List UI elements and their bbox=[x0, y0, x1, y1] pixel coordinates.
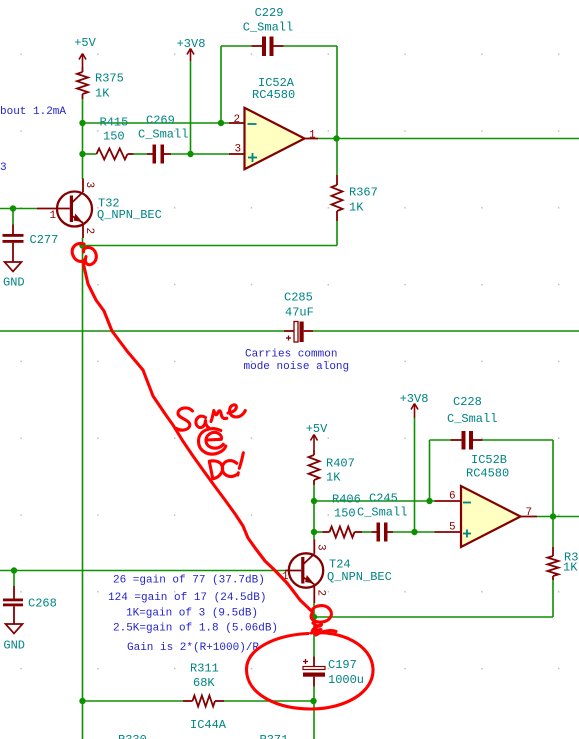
wire T24 emitter to C197 bbox=[313, 617, 315, 657]
svg-text:1K=gain of 3 (9.5dB): 1K=gain of 3 (9.5dB) bbox=[126, 608, 258, 620]
svg-text:1: 1 bbox=[309, 130, 316, 142]
svg-text:IC52B: IC52B bbox=[471, 453, 507, 467]
junction C229 loop / pin2 bbox=[218, 120, 224, 126]
op-amp U-IC52B body bbox=[461, 453, 521, 547]
note carries common mode noise bbox=[244, 349, 350, 374]
svg-text:C268: C268 bbox=[28, 597, 57, 611]
note gain table bbox=[108, 575, 278, 655]
wire C277 drop bbox=[12, 209, 14, 225]
svg-text:Q_NPN_BEC: Q_NPN_BEC bbox=[97, 208, 162, 222]
svg-text:+5V: +5V bbox=[306, 422, 328, 436]
svg-text:2: 2 bbox=[315, 590, 327, 597]
svg-text:R367: R367 bbox=[349, 186, 378, 200]
svg-text:IC44A: IC44A bbox=[190, 718, 227, 732]
svg-text:GND: GND bbox=[3, 639, 25, 653]
junction V1 pin3 net bbox=[79, 151, 85, 157]
capacitor C269 bbox=[138, 114, 188, 164]
junction T32 base / C277 bbox=[10, 205, 16, 211]
svg-text:6: 6 bbox=[449, 491, 456, 503]
capacitor C245 bbox=[357, 492, 407, 542]
svg-text:47uF: 47uF bbox=[285, 306, 314, 320]
wire emitter T32 to R367 bottom bbox=[83, 245, 338, 247]
svg-text:1K: 1K bbox=[563, 561, 578, 575]
svg-text:R371: R371 bbox=[260, 733, 289, 739]
annotation handwritten at-sign bbox=[199, 429, 226, 454]
junction IC52A output bbox=[333, 135, 339, 141]
svg-text:68K: 68K bbox=[193, 676, 215, 690]
label R330 (clipped) bbox=[118, 733, 147, 739]
svg-text:1K: 1K bbox=[326, 471, 341, 485]
capacitor C268 bbox=[3, 586, 57, 624]
resistor R375 bbox=[77, 67, 124, 101]
svg-text:C269: C269 bbox=[146, 114, 175, 128]
op-amp U-IC52A body bbox=[245, 76, 305, 169]
junction C197 bottom bbox=[310, 698, 316, 704]
svg-text:2: 2 bbox=[83, 228, 95, 235]
wire R3 connections bbox=[552, 517, 554, 618]
power +5V (top) bbox=[74, 36, 96, 67]
wire emitter T24 net bbox=[314, 603, 553, 617]
svg-text:C228: C228 bbox=[453, 395, 482, 409]
wire V1 lower (emitter of T32 down) bbox=[82, 238, 84, 739]
svg-text:1K: 1K bbox=[349, 201, 364, 215]
svg-text:124 =gain of 17 (24.5dB): 124 =gain of 17 (24.5dB) bbox=[108, 592, 266, 604]
label IC44A bbox=[190, 718, 227, 732]
svg-text:R415: R415 bbox=[100, 116, 129, 130]
capacitor C285 47uF polarized bbox=[284, 291, 314, 343]
svg-text:+3V8: +3V8 bbox=[177, 37, 206, 51]
annotation oval around C197 bbox=[246, 631, 373, 709]
svg-text:3: 3 bbox=[83, 182, 95, 189]
wire C197 to bottom bbox=[313, 687, 315, 739]
annotation circle on T24 emitter node bbox=[311, 606, 331, 631]
power +5V (bottom) bbox=[306, 422, 328, 450]
wire +5V rail / V1 upper bbox=[82, 99, 84, 179]
wire +3V8 bottom drop bbox=[414, 417, 416, 532]
capacitor C277 bbox=[3, 225, 59, 263]
wire +5V bottom rail bbox=[313, 485, 315, 540]
power +3V8 (bottom) bbox=[400, 392, 429, 418]
wire R311 net bottom bbox=[83, 700, 314, 702]
svg-text:C245: C245 bbox=[369, 492, 398, 506]
svg-text:C_Small: C_Small bbox=[447, 412, 497, 426]
ground GND (C268) bbox=[3, 624, 25, 653]
wire IC52A output net bbox=[318, 138, 579, 140]
svg-text:C277: C277 bbox=[30, 233, 59, 247]
svg-text:RC4580: RC4580 bbox=[466, 467, 509, 481]
junction +3V8 / pin3 bbox=[187, 151, 193, 157]
svg-text:RC4580: RC4580 bbox=[252, 88, 295, 102]
capacitor C228 bbox=[447, 395, 497, 450]
wire pin2 net IC52A bbox=[83, 122, 230, 124]
label R371 (clipped) bbox=[260, 733, 289, 739]
svg-text:3: 3 bbox=[315, 544, 327, 551]
wire C268 drop bbox=[13, 571, 15, 587]
note '3' left edge bbox=[0, 162, 7, 174]
wire +3V8 top drop bbox=[190, 61, 192, 154]
resistor R406 bbox=[323, 493, 363, 538]
junction C228 loop / pin6 bbox=[426, 498, 432, 504]
annotation handwritten Same bbox=[177, 405, 246, 430]
svg-text:2: 2 bbox=[234, 114, 241, 126]
svg-text:bout 1.2mA: bout 1.2mA bbox=[0, 106, 66, 118]
wire pin5 net IC52B segments bbox=[314, 531, 435, 533]
svg-text:C229: C229 bbox=[255, 6, 284, 20]
svg-text:R330: R330 bbox=[118, 733, 147, 739]
note 'bout 1.2mA' bbox=[0, 106, 66, 118]
ground GND (C277) bbox=[3, 262, 25, 290]
junction R407 / pin5 net bbox=[311, 529, 317, 535]
svg-text:5: 5 bbox=[449, 522, 456, 534]
transistor T32 Q_NPN_BEC bbox=[37, 179, 162, 239]
grid dots (decorative) bbox=[20, 54, 559, 670]
svg-text:+5V: +5V bbox=[74, 36, 96, 50]
junction T24 emitter node bbox=[311, 614, 317, 620]
svg-text:150: 150 bbox=[334, 507, 356, 521]
pin 2 IC52A bbox=[229, 114, 257, 126]
wire base T32 from left edge bbox=[0, 208, 37, 210]
svg-text:Q_NPN_BEC: Q_NPN_BEC bbox=[327, 570, 392, 584]
svg-text:1K: 1K bbox=[95, 87, 110, 101]
annotation scribble on T32 emitter node bbox=[72, 243, 96, 264]
resistor R311 bbox=[183, 662, 224, 707]
svg-text:C_Small: C_Small bbox=[357, 506, 407, 520]
svg-text:150: 150 bbox=[103, 130, 125, 144]
junction IC52B output bbox=[550, 513, 556, 519]
junction +3V8 / pin5 bbox=[411, 529, 417, 535]
svg-text:1000u: 1000u bbox=[328, 673, 364, 687]
wire C229 feedback loop bbox=[221, 46, 337, 139]
wire full-width net with C285 bbox=[0, 330, 579, 332]
wire pin3 net IC52A segments bbox=[83, 153, 230, 155]
svg-text:GND: GND bbox=[3, 276, 25, 290]
junction T32 emitter node bbox=[79, 242, 85, 248]
annotation handwritten DC! bbox=[209, 453, 243, 479]
resistor R368 (right edge) bbox=[548, 547, 579, 580]
pin 1 IC52A output bbox=[305, 130, 319, 142]
junction V1 pin2 net bbox=[79, 120, 85, 126]
svg-text:7: 7 bbox=[526, 507, 533, 519]
svg-text:1: 1 bbox=[50, 210, 57, 222]
svg-text:R311: R311 bbox=[190, 662, 219, 676]
svg-text:C285: C285 bbox=[284, 291, 313, 305]
svg-text:+3V8: +3V8 bbox=[400, 392, 429, 406]
junction R311 left bbox=[79, 698, 85, 704]
svg-text:mode noise along: mode noise along bbox=[244, 361, 350, 373]
resistor R407 bbox=[309, 450, 355, 485]
svg-text:C197: C197 bbox=[328, 658, 357, 672]
annotation long curve 'same DC' link bbox=[83, 262, 312, 611]
resistor R367 bbox=[332, 175, 378, 221]
wire R367 connections bbox=[336, 139, 338, 246]
capacitor C229 bbox=[243, 6, 293, 56]
pin 6 IC52B bbox=[435, 491, 472, 503]
svg-text:C_Small: C_Small bbox=[138, 128, 188, 142]
svg-text:R375: R375 bbox=[95, 72, 124, 86]
transistor T24 Q_NPN_BEC bbox=[282, 540, 392, 604]
pin 3 IC52A bbox=[229, 144, 257, 163]
svg-text:3: 3 bbox=[0, 162, 7, 174]
junction T24 base / C268 bbox=[11, 567, 17, 573]
svg-text:R407: R407 bbox=[326, 457, 355, 471]
pin 5 IC52B bbox=[435, 522, 472, 538]
wire IC52B output net bbox=[537, 516, 579, 518]
svg-text:R406: R406 bbox=[332, 493, 361, 507]
svg-text:Carries common: Carries common bbox=[245, 349, 337, 361]
svg-text:3: 3 bbox=[235, 144, 242, 156]
wire pin6 net IC52B bbox=[314, 500, 435, 502]
resistor R415 bbox=[97, 116, 134, 160]
svg-text:26 =gain of 77 (37.7dB): 26 =gain of 77 (37.7dB) bbox=[113, 575, 265, 587]
wire C228 feedback loop bbox=[430, 440, 554, 517]
wire base T24 from left edge bbox=[0, 570, 285, 572]
capacitor C197 1000u polarized bbox=[303, 657, 364, 688]
svg-text:C_Small: C_Small bbox=[243, 21, 293, 35]
svg-text:2.5K=gain of 1.8 (5.06dB): 2.5K=gain of 1.8 (5.06dB) bbox=[113, 623, 278, 635]
svg-text:Gain is 2*(R+1000)/R: Gain is 2*(R+1000)/R bbox=[127, 642, 259, 654]
power +3V8 (top) bbox=[177, 37, 206, 61]
pin 7 IC52B output bbox=[521, 507, 538, 519]
junction R407 / pin6 net bbox=[311, 498, 317, 504]
